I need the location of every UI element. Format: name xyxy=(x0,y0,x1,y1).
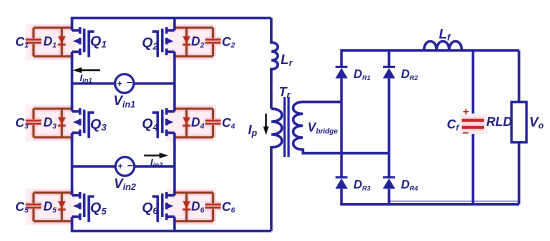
wire right leg xyxy=(173,18,176,30)
transistor Q1 xyxy=(72,27,94,57)
wire bridge bottom rail xyxy=(340,203,519,206)
voltage source Vin1 with wires xyxy=(72,82,115,85)
wire capacitor branch lower xyxy=(472,129,475,205)
voltage source Vin2 with wires xyxy=(72,165,116,168)
svg-text:+: + xyxy=(118,161,123,171)
snubber cell C6 D6 (capacitor C6, diode D6) xyxy=(167,189,217,226)
inductor Lf xyxy=(424,41,462,50)
inductor Lr xyxy=(271,18,277,109)
snubber cell C3 D3 (capacitor C3, diode D3) xyxy=(26,105,76,142)
snubber cell C4 D4 (capacitor C4, diode D4) xyxy=(167,105,217,142)
diode DR4 xyxy=(388,176,391,179)
wire left leg xyxy=(71,18,74,30)
diode DR3 xyxy=(340,176,343,179)
transistor Q6 xyxy=(152,192,174,222)
svg-text:RLD: RLD xyxy=(486,115,512,129)
transistor Q2 xyxy=(152,27,174,57)
wire bridge right leg xyxy=(388,153,391,177)
svg-text:−: − xyxy=(127,161,133,172)
transformer Tr secondary winding with leads to bridge xyxy=(293,102,389,153)
svg-text:−: − xyxy=(462,127,468,139)
svg-text:−: − xyxy=(127,78,133,89)
wire bottom rail xyxy=(71,230,272,233)
capacitor Cf xyxy=(459,114,487,135)
wire bridge top rail xyxy=(340,49,519,52)
snubber cell C5 D5 (capacitor C5, diode D5) xyxy=(26,189,76,226)
snubber cell C2 D2 (capacitor C2, diode D2) xyxy=(167,24,217,61)
wire top rail xyxy=(71,17,272,20)
svg-text:+: + xyxy=(463,107,469,119)
resistor RLD xyxy=(518,50,521,102)
wire capacitor branch upper xyxy=(472,50,475,119)
transistor Q3 xyxy=(72,108,94,138)
transformer core xyxy=(283,97,285,157)
diode DR2 xyxy=(388,50,391,67)
transistor Q5 xyxy=(72,192,94,222)
diode DR1 xyxy=(340,50,343,67)
svg-text:+: + xyxy=(117,78,122,88)
wire bridge left leg xyxy=(340,102,343,177)
transistor Q4 xyxy=(152,108,174,138)
wire output upper rail artifact xyxy=(389,200,519,202)
snubber cell C1 D1 (capacitor C1, diode D1) xyxy=(26,24,76,61)
current arrow Ip xyxy=(265,114,267,129)
current arrow Iin2 xyxy=(144,155,161,157)
current arrow Iin1 xyxy=(80,69,100,71)
transformer Tr primary winding (wire to bottom rail) xyxy=(271,109,282,231)
